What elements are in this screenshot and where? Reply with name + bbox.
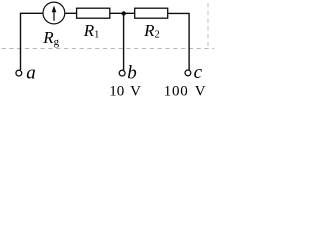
svg-text:100 V: 100 V [164, 83, 207, 99]
current source Rg circle [43, 2, 65, 24]
dashed boundary horizontal [2, 48, 215, 50]
terminal a circle [16, 70, 22, 76]
terminal c circle [185, 70, 191, 76]
wire circle to R1 [65, 12, 77, 14]
wire R2 to terminal c [168, 13, 189, 70]
resistor R2 box [135, 8, 168, 18]
svg-text:a: a [26, 62, 36, 83]
resistor R1 box [77, 8, 110, 18]
current source arrow [53, 10, 55, 21]
svg-text:c: c [194, 62, 203, 83]
terminal b circle [119, 70, 125, 76]
svg-text:10 V: 10 V [109, 83, 141, 99]
dashed boundary vertical [207, 3, 209, 49]
junction dot node b [122, 11, 126, 15]
wire R1 to R2 [110, 12, 135, 14]
wire node b down to terminal b [123, 13, 125, 70]
svg-text:b: b [127, 62, 137, 83]
wire left: corner to terminal a [21, 13, 43, 70]
